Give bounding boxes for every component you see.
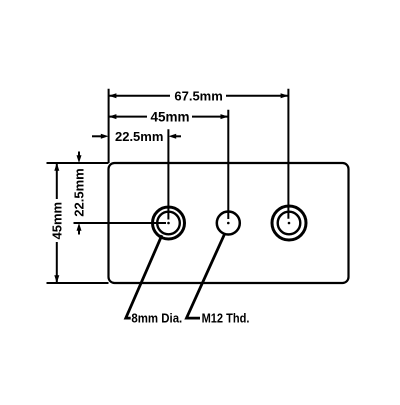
dimension 67.5mm right arrowhead <box>281 93 289 98</box>
dimension 22.5mm top left outside arrow shaft <box>92 135 104 137</box>
leader line 8mm Dia. <box>126 235 162 318</box>
dimension 67.5mm line right segment <box>226 95 288 97</box>
dimension 45mm top line right segment <box>192 116 228 118</box>
dimension 45mm top left arrowhead <box>109 114 117 119</box>
dimension 67.5mm left arrowhead <box>109 93 117 98</box>
hole H2 center dot <box>227 222 230 225</box>
svg-text:22.5mm: 22.5mm <box>72 168 87 216</box>
dimension 22.5mm top right arrowhead <box>168 134 176 139</box>
dimension 45mm top line left segment <box>109 116 147 118</box>
extension line hole H2 vertical <box>227 110 229 219</box>
extension line top edge horizontal <box>47 162 109 164</box>
hole H3 center dot <box>288 222 291 225</box>
hole H1 inner circle <box>157 212 180 235</box>
dimension 45mm left bottom arrowhead <box>54 275 59 283</box>
dimension 45mm left line upper segment <box>56 163 58 199</box>
dimension 22.5mm left top arrowhead <box>77 155 82 163</box>
hole H3 outer circle <box>272 206 306 240</box>
svg-text:67.5mm: 67.5mm <box>174 89 222 104</box>
hole H3 inner circle <box>278 212 301 235</box>
dimension 45mm left line lower segment <box>56 242 58 283</box>
dimension 45mm left top arrowhead <box>54 163 59 171</box>
dimension 22.5mm left bottom outside arrow shaft <box>78 228 80 235</box>
dimension 67.5mm line left segment <box>109 95 170 97</box>
dimension 22.5mm left bottom arrowhead <box>77 223 82 231</box>
svg-text:22.5mm: 22.5mm <box>115 129 163 144</box>
extension line hole H1 vertical <box>167 129 169 219</box>
svg-text:M12 Thd.: M12 Thd. <box>202 311 250 326</box>
extension line bottom edge horizontal <box>47 282 109 284</box>
svg-text:8mm Dia.: 8mm Dia. <box>131 311 182 326</box>
extension line left edge vertical <box>108 89 110 163</box>
hole H1 center dot <box>167 222 170 225</box>
dimension 45mm top right arrowhead <box>221 114 229 119</box>
svg-text:45mm: 45mm <box>49 202 64 240</box>
plate outline <box>109 163 349 283</box>
dimension 22.5mm top right outside arrow shaft <box>173 135 181 137</box>
hole H2 circle <box>217 212 240 235</box>
extension line hole H3 vertical <box>287 89 289 219</box>
hole H1 outer circle <box>153 207 185 239</box>
leader line M12 Thd. <box>187 234 225 318</box>
svg-text:45mm: 45mm <box>150 109 189 124</box>
extension line hole H1 horizontal <box>74 222 167 224</box>
dimension 22.5mm left top outside arrow shaft <box>78 152 80 159</box>
dimension 22.5mm top left arrowhead <box>101 134 109 139</box>
